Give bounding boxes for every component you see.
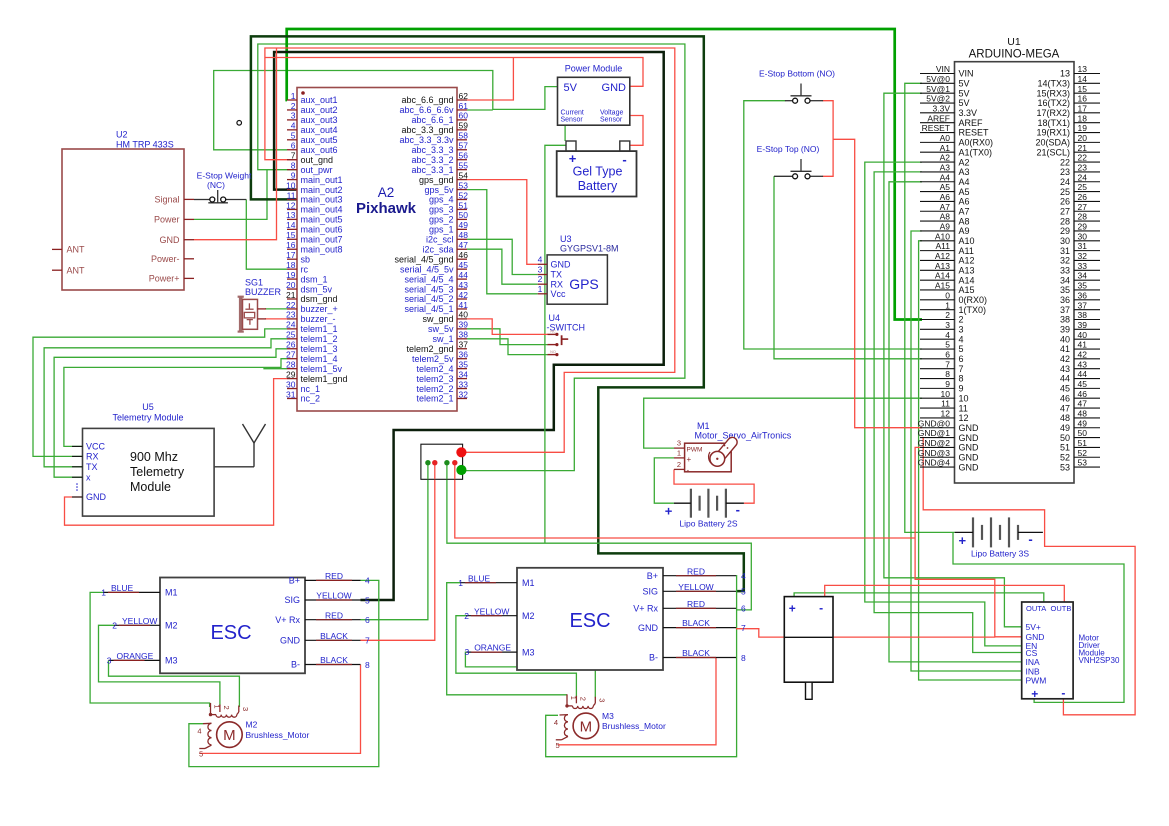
svg-text:A5: A5 [959, 187, 970, 197]
svg-text:main_out1: main_out1 [301, 175, 343, 185]
svg-text:GND: GND [959, 423, 980, 433]
svg-text:A8: A8 [959, 216, 970, 226]
svg-text:24: 24 [1078, 172, 1088, 182]
svg-text:telem1_4: telem1_4 [301, 354, 338, 364]
node open circle marker [237, 121, 242, 126]
svg-text:YELLOW: YELLOW [122, 616, 157, 626]
svg-text:RESET: RESET [922, 123, 950, 133]
svg-text:30: 30 [1060, 236, 1070, 246]
svg-text:-: - [736, 502, 740, 517]
svg-text:A14: A14 [959, 275, 975, 285]
wire ESC2 M1 BLUE to M3 motor coil1 (green) [447, 583, 567, 695]
svg-text:abc_3.3_3: abc_3.3_3 [411, 145, 453, 155]
wire E-Stop chain (red) [823, 101, 834, 177]
svg-text:AREF: AREF [959, 118, 984, 128]
svg-text:serial_4/5_gnd: serial_4/5_gnd [394, 254, 453, 264]
svg-text:RED: RED [687, 566, 705, 576]
svg-text:Sensor: Sensor [600, 117, 623, 124]
svg-text:E-Stop Weight: E-Stop Weight [197, 171, 252, 181]
svg-text:39: 39 [1078, 320, 1088, 330]
svg-text:2: 2 [112, 620, 117, 630]
svg-text:buzzer_+: buzzer_+ [301, 304, 338, 314]
svg-text:57: 57 [459, 141, 469, 151]
svg-text:OUTA: OUTA [1026, 604, 1046, 613]
svg-text:A15: A15 [935, 281, 950, 291]
svg-text:12: 12 [959, 413, 969, 423]
U5 left pins VCC RX TX x GND [72, 445, 83, 447]
svg-text:A11: A11 [959, 246, 974, 256]
svg-text:35: 35 [459, 359, 469, 369]
radio module U2 HM TRP 433S [52, 130, 194, 291]
svg-text:47: 47 [1060, 403, 1070, 413]
svg-text:Lipo Battery 3S: Lipo Battery 3S [971, 548, 1029, 558]
svg-text:8: 8 [365, 660, 370, 670]
wire out_pwr net: Pixhawk pin8 out_pwr to junction green dot (green) [258, 44, 685, 471]
svg-text:58: 58 [459, 131, 469, 141]
wire ESC1 M1 BLUE to M2 motor coil1 (green) [90, 592, 210, 707]
svg-text:16(TX2): 16(TX2) [1037, 98, 1070, 108]
svg-text:i2c_sda: i2c_sda [422, 244, 453, 254]
svg-text:11: 11 [941, 399, 950, 409]
svg-text:Signal: Signal [154, 195, 179, 205]
svg-text:Sensor: Sensor [561, 117, 584, 124]
svg-text:19: 19 [286, 270, 296, 280]
svg-text:ANT: ANT [67, 245, 86, 255]
svg-text:A13: A13 [935, 261, 950, 271]
svg-text:5: 5 [945, 340, 950, 350]
wire telem1_2 to U5 TX (green) [44, 339, 287, 467]
svg-text:41: 41 [1078, 340, 1088, 350]
svg-text:54: 54 [459, 170, 469, 180]
svg-text:27: 27 [1078, 202, 1088, 212]
wire M3 motor pin5 to ESC2 B- (red) [558, 658, 716, 745]
ESC1 right pins B+ SIG V+Rx GND B- [305, 579, 361, 581]
svg-text:40: 40 [1060, 334, 1070, 344]
svg-text:+: + [665, 504, 673, 519]
svg-text:-: - [819, 601, 823, 615]
svg-text:29: 29 [1060, 226, 1070, 236]
svg-text:23: 23 [286, 310, 296, 320]
wire ESC1 B+ to M2 motor pin4 loop (green) [189, 580, 379, 766]
svg-text:-: - [622, 152, 626, 167]
svg-text:8: 8 [741, 653, 746, 663]
svg-text:38: 38 [1060, 315, 1070, 325]
svg-text:Motor_Servo_AirTronics: Motor_Servo_AirTronics [695, 431, 792, 441]
svg-text:serial_4/5_5v: serial_4/5_5v [400, 264, 454, 274]
svg-text:3: 3 [464, 647, 469, 657]
svg-text:27: 27 [286, 350, 296, 360]
wire gps_gnd to GPS GND (red) [467, 180, 538, 265]
svg-text:A10: A10 [935, 231, 950, 241]
svg-text:telem1_3: telem1_3 [301, 344, 338, 354]
svg-text:44: 44 [1060, 374, 1070, 384]
motor DC gear motor [784, 597, 833, 700]
svg-text:41: 41 [459, 300, 469, 310]
svg-text:29: 29 [1078, 222, 1088, 232]
svg-text:51: 51 [1078, 438, 1088, 448]
battery Gel Type Battery [557, 141, 637, 197]
svg-text:GND@2: GND@2 [918, 438, 951, 448]
microcontroller U1 ARDUINO-MEGA [918, 36, 1100, 483]
switch E-Stop Bottom (NO) [759, 69, 835, 104]
svg-text:BLACK: BLACK [682, 648, 710, 658]
svg-text:RED: RED [325, 610, 343, 620]
svg-text:4: 4 [945, 330, 950, 340]
svg-text:M3: M3 [602, 711, 614, 721]
svg-text:36: 36 [1060, 295, 1070, 305]
svg-text:0(RX0): 0(RX0) [959, 295, 988, 305]
svg-text:10: 10 [286, 180, 296, 190]
svg-text:abc_6.6_6.6v: abc_6.6_6.6v [399, 105, 454, 115]
svg-text:19: 19 [1078, 123, 1088, 133]
wire ESC1 M3 ORANGE to M2 motor coil3 (green) [109, 660, 240, 707]
svg-text:5V: 5V [959, 79, 970, 89]
junction block with net dots [421, 444, 467, 479]
svg-text:aux_out6: aux_out6 [301, 145, 338, 155]
wire abc_6.6_6.6v pin61 branch (green) [467, 109, 493, 111]
node red power dot [456, 447, 466, 457]
svg-text:NC: NC [550, 330, 556, 334]
svg-text:9: 9 [291, 170, 296, 180]
svg-text:20: 20 [1078, 133, 1088, 143]
svg-text:18: 18 [286, 260, 296, 270]
svg-text:29: 29 [286, 369, 296, 379]
svg-text:U2: U2 [116, 130, 128, 140]
svg-text:26: 26 [286, 340, 296, 350]
svg-text:V+ Rx: V+ Rx [633, 604, 658, 614]
svg-text:5V: 5V [564, 82, 578, 94]
svg-text:16: 16 [1078, 94, 1088, 104]
wire ESC2 GND to motor driver GND (red) [736, 629, 995, 637]
svg-text:Power: Power [154, 215, 180, 225]
svg-text:abc_6.6_gnd: abc_6.6_gnd [401, 95, 453, 105]
wire E-Stop Top to Arduino pin 6 (green) [774, 176, 922, 358]
svg-text:YELLOW: YELLOW [474, 606, 509, 616]
svg-text:2: 2 [464, 611, 469, 621]
A2 Pixhawk right pins 62-32 with labels [457, 99, 467, 101]
switch E-Stop Weight (NC) [197, 171, 252, 203]
svg-text:13: 13 [286, 210, 296, 220]
svg-text:M1: M1 [697, 421, 710, 431]
svg-text:telem2_4: telem2_4 [416, 364, 453, 374]
svg-text:25: 25 [1060, 187, 1070, 197]
svg-text:abc_3.3_gnd: abc_3.3_gnd [401, 125, 453, 135]
svg-text:40: 40 [459, 310, 469, 320]
svg-text:Lipo Battery 2S: Lipo Battery 2S [679, 519, 737, 529]
svg-text:6: 6 [291, 141, 296, 151]
svg-text:25: 25 [1078, 182, 1088, 192]
ESC1 left pins M1 M2 M3 [103, 591, 160, 593]
node green power dot [456, 465, 466, 475]
svg-text:serial_4/5_2: serial_4/5_2 [404, 294, 453, 304]
svg-text:aux_out4: aux_out4 [301, 125, 338, 135]
svg-text:13: 13 [1060, 69, 1070, 79]
svg-text:7: 7 [741, 623, 746, 633]
svg-text:dsm_5v: dsm_5v [301, 284, 333, 294]
svg-text:6: 6 [741, 604, 746, 614]
svg-text:main_out5: main_out5 [301, 215, 343, 225]
svg-text:3: 3 [598, 698, 607, 702]
svg-text:Brushless_Motor: Brushless_Motor [602, 721, 666, 731]
svg-text:GND@4: GND@4 [918, 458, 951, 468]
svg-text:telem1_gnd: telem1_gnd [301, 374, 348, 384]
svg-text:32: 32 [1078, 251, 1088, 261]
svg-text:9: 9 [959, 384, 964, 394]
svg-text:VCC: VCC [86, 442, 106, 452]
svg-text:M2: M2 [246, 720, 258, 730]
svg-text:34: 34 [459, 369, 469, 379]
svg-text:7: 7 [959, 364, 964, 374]
svg-text:TX: TX [551, 270, 563, 280]
svg-text:48: 48 [1060, 413, 1070, 423]
wire telem1_1 to U5 RX (green) [33, 329, 287, 457]
svg-text:BLUE: BLUE [111, 583, 134, 593]
svg-text:5: 5 [959, 344, 964, 354]
antenna of U5 [243, 424, 266, 467]
svg-text:28: 28 [1078, 212, 1088, 222]
flight controller A2 Pixhawk [286, 88, 468, 412]
svg-text:Power Module: Power Module [565, 64, 623, 74]
svg-text:sb: sb [301, 254, 311, 264]
svg-text:Brushless_Motor: Brushless_Motor [246, 730, 310, 740]
wire Lipo Battery 3S + to motor driver + (green) [953, 532, 1124, 702]
svg-text:39: 39 [1060, 325, 1070, 335]
svg-text:37: 37 [459, 340, 469, 350]
wire near-black: main_out2 to ESC1 SIG [274, 52, 664, 600]
svg-text:gps_gnd: gps_gnd [419, 175, 454, 185]
wire Arduino A10 to motor driver PWM (green) [919, 241, 1022, 680]
svg-text:23: 23 [1078, 163, 1088, 173]
svg-text:60: 60 [459, 111, 469, 121]
svg-text:BLACK: BLACK [320, 655, 348, 665]
svg-text:1: 1 [945, 300, 950, 310]
svg-text:dsm_gnd: dsm_gnd [301, 294, 338, 304]
svg-text:M2: M2 [522, 611, 535, 621]
svg-text:GYGPSV1-8M: GYGPSV1-8M [560, 244, 619, 254]
svg-text:GND@3: GND@3 [918, 448, 951, 458]
svg-text:3: 3 [291, 111, 296, 121]
svg-text:VIN: VIN [959, 69, 974, 79]
wire E-Stop Bottom to Arduino pin 5 (green) [744, 101, 922, 349]
svg-text:52: 52 [459, 190, 469, 200]
svg-text:telem2_3: telem2_3 [416, 374, 453, 384]
svg-text:Telemetry Module: Telemetry Module [112, 413, 183, 423]
svg-text:A8: A8 [940, 212, 951, 222]
svg-text:1: 1 [569, 696, 578, 700]
svg-text:16: 16 [286, 240, 296, 250]
wire Arduino GND@1 to Lipo 3S - to motor driver - (red) [922, 438, 1135, 715]
svg-text:22: 22 [1078, 153, 1088, 163]
svg-text:A5: A5 [940, 182, 951, 192]
wire gps_5v to GPS Vcc (green) [467, 190, 538, 294]
wire Arduino A3 to motor driver CS (green) [874, 172, 1022, 653]
svg-text:GND: GND [551, 260, 572, 270]
svg-text:SIG: SIG [284, 595, 300, 605]
svg-text:34: 34 [1078, 271, 1088, 281]
svg-text:17: 17 [1078, 103, 1088, 113]
switch U4 -SWITCH [547, 313, 586, 356]
svg-text:U1: U1 [1007, 36, 1021, 48]
svg-text:abc_6.6_1: abc_6.6_1 [411, 115, 453, 125]
svg-text:rc: rc [301, 264, 309, 274]
svg-text:4: 4 [959, 334, 964, 344]
svg-text:M: M [223, 727, 236, 744]
svg-text:A6: A6 [959, 197, 970, 207]
svg-text:31: 31 [1060, 246, 1070, 256]
svg-text:(NC): (NC) [207, 180, 225, 190]
svg-text:47: 47 [1078, 399, 1088, 409]
svg-text:36: 36 [1078, 290, 1088, 300]
svg-text:Current: Current [561, 110, 584, 117]
svg-text:A15: A15 [959, 285, 975, 295]
wire Arduino A4 to motor driver INA (green) [889, 182, 1022, 662]
svg-text:24: 24 [1060, 177, 1070, 187]
svg-text:47: 47 [459, 240, 469, 250]
svg-text:B+: B+ [647, 571, 658, 581]
wire U2 GND up to ground rail (red) [194, 48, 277, 240]
buzzer SG1 [238, 278, 282, 333]
svg-text:B+: B+ [289, 576, 300, 586]
svg-text:A2: A2 [378, 185, 395, 200]
svg-text:15: 15 [1078, 84, 1088, 94]
svg-text:GND: GND [959, 452, 980, 462]
svg-text:nc_2: nc_2 [301, 394, 321, 404]
svg-text:Pixhawk: Pixhawk [356, 200, 417, 217]
svg-text:nc_1: nc_1 [301, 384, 321, 394]
svg-text:main_out7: main_out7 [301, 235, 343, 245]
wire buzzer_+ (green) [265, 308, 287, 310]
svg-text:12: 12 [941, 409, 951, 419]
svg-text:M1: M1 [165, 588, 178, 598]
svg-text:4: 4 [554, 718, 558, 727]
svg-text:50: 50 [459, 210, 469, 220]
svg-text:26: 26 [1060, 197, 1070, 207]
U1 left pin rows with labels [920, 73, 955, 75]
svg-text:A13: A13 [959, 266, 975, 276]
U2 left pins ANT ANT [52, 248, 62, 250]
wire U2 Power to out_pwr net (green) [194, 170, 267, 220]
svg-text:8: 8 [945, 369, 950, 379]
svg-text:37: 37 [1078, 300, 1088, 310]
svg-text:44: 44 [1078, 369, 1088, 379]
wire U2 Signal to E-Stop Weight switch (black) [194, 199, 210, 201]
svg-text:i2c_scl: i2c_scl [426, 235, 454, 245]
svg-text:GND: GND [280, 636, 301, 646]
svg-text:45: 45 [1078, 379, 1088, 389]
svg-text:Power-: Power- [151, 254, 180, 264]
svg-text:11: 11 [287, 190, 296, 200]
svg-text:51: 51 [459, 200, 469, 210]
svg-text:3: 3 [945, 320, 950, 330]
wire Arduino pin 10 to servo M1 PWM (green) [644, 398, 922, 448]
wire telem1_3 to U5 x (green) [54, 349, 287, 477]
svg-text:OUTB: OUTB [1051, 604, 1072, 613]
svg-text:7: 7 [291, 151, 296, 161]
svg-text:2: 2 [291, 101, 296, 111]
svg-text:26: 26 [1078, 192, 1088, 202]
svg-text:48: 48 [1078, 409, 1088, 419]
svg-text:11: 11 [959, 403, 968, 413]
svg-text:38: 38 [459, 330, 469, 340]
svg-text:+: + [959, 533, 967, 548]
svg-text:53: 53 [459, 180, 469, 190]
svg-text:3: 3 [241, 707, 250, 711]
wire junction red to GND@2 rail (red) [455, 463, 915, 538]
svg-text:A0(RX0): A0(RX0) [959, 138, 994, 148]
svg-text:32: 32 [459, 389, 469, 399]
svg-text:31: 31 [286, 389, 296, 399]
wire Lipo Battery 3S + to Arduino 5V@0 (green) [905, 83, 955, 532]
wire telem1_4 to U5 VCC (green) [64, 359, 287, 447]
svg-text:3: 3 [538, 265, 543, 275]
svg-text:telem2_5v: telem2_5v [412, 354, 454, 364]
wire i2c_scl to GPS TX (green) [467, 239, 538, 274]
wire servo - to Lipo Battery 2S - (red) [674, 469, 754, 503]
U3 pins GND TX RX Vcc with numbers 4 3 2 1 [538, 263, 547, 265]
svg-text:21(SCL): 21(SCL) [1036, 147, 1070, 157]
svg-text:E-Stop Top (NO): E-Stop Top (NO) [757, 144, 820, 154]
svg-text:gps_3: gps_3 [429, 205, 454, 215]
svg-text:GND: GND [959, 433, 980, 443]
wire junction green to ESC1 V+Rx (green) [361, 463, 428, 620]
svg-text:-: - [1061, 686, 1065, 700]
svg-text:4: 4 [197, 727, 201, 736]
svg-text:46: 46 [1060, 393, 1070, 403]
svg-text:GND: GND [638, 623, 659, 633]
wire ground rail to Power Module GND (red) [265, 58, 643, 87]
svg-text:45: 45 [459, 260, 469, 270]
svg-text:telem1_2: telem1_2 [301, 334, 338, 344]
wire sw_gnd to U4 (red) [467, 319, 548, 335]
svg-text:49: 49 [1078, 418, 1088, 428]
svg-text:10: 10 [959, 393, 969, 403]
svg-text:VIN: VIN [936, 64, 950, 74]
svg-text:32: 32 [1060, 256, 1070, 266]
motor M2 Brushless_Motor [197, 703, 309, 759]
svg-text:5V+: 5V+ [1026, 622, 1041, 632]
svg-text:1: 1 [677, 449, 681, 458]
svg-text:TX: TX [86, 462, 98, 472]
svg-text:A11: A11 [936, 241, 951, 251]
svg-text:59: 59 [459, 121, 469, 131]
svg-text:3.3V: 3.3V [959, 108, 978, 118]
svg-text:-: - [1028, 531, 1032, 546]
svg-text:43: 43 [459, 280, 469, 290]
wire junction green to ESC2 V+Rx (green) [447, 463, 751, 610]
svg-text:A12: A12 [935, 251, 950, 261]
M1 pins 3 PWM / 1 + / 2 - [674, 447, 685, 449]
svg-text:38: 38 [1078, 310, 1088, 320]
svg-text:21: 21 [286, 290, 296, 300]
svg-text:49: 49 [1060, 423, 1070, 433]
svg-text:2: 2 [677, 460, 681, 469]
svg-text:51: 51 [1060, 443, 1070, 453]
svg-text:4: 4 [741, 571, 746, 581]
svg-text:3.3V: 3.3V [933, 103, 951, 113]
svg-text:A2: A2 [940, 153, 951, 163]
svg-text:sw_gnd: sw_gnd [422, 314, 453, 324]
svg-text:8: 8 [291, 160, 296, 170]
svg-text:GND: GND [86, 492, 107, 502]
svg-text:A6: A6 [940, 192, 951, 202]
svg-text:15: 15 [286, 230, 296, 240]
svg-text:2: 2 [945, 310, 950, 320]
svg-text:Vcc: Vcc [551, 289, 567, 299]
svg-text:5V@0: 5V@0 [926, 74, 950, 84]
svg-text:4: 4 [291, 121, 296, 131]
svg-text:7: 7 [365, 636, 370, 646]
svg-text:5: 5 [291, 131, 296, 141]
